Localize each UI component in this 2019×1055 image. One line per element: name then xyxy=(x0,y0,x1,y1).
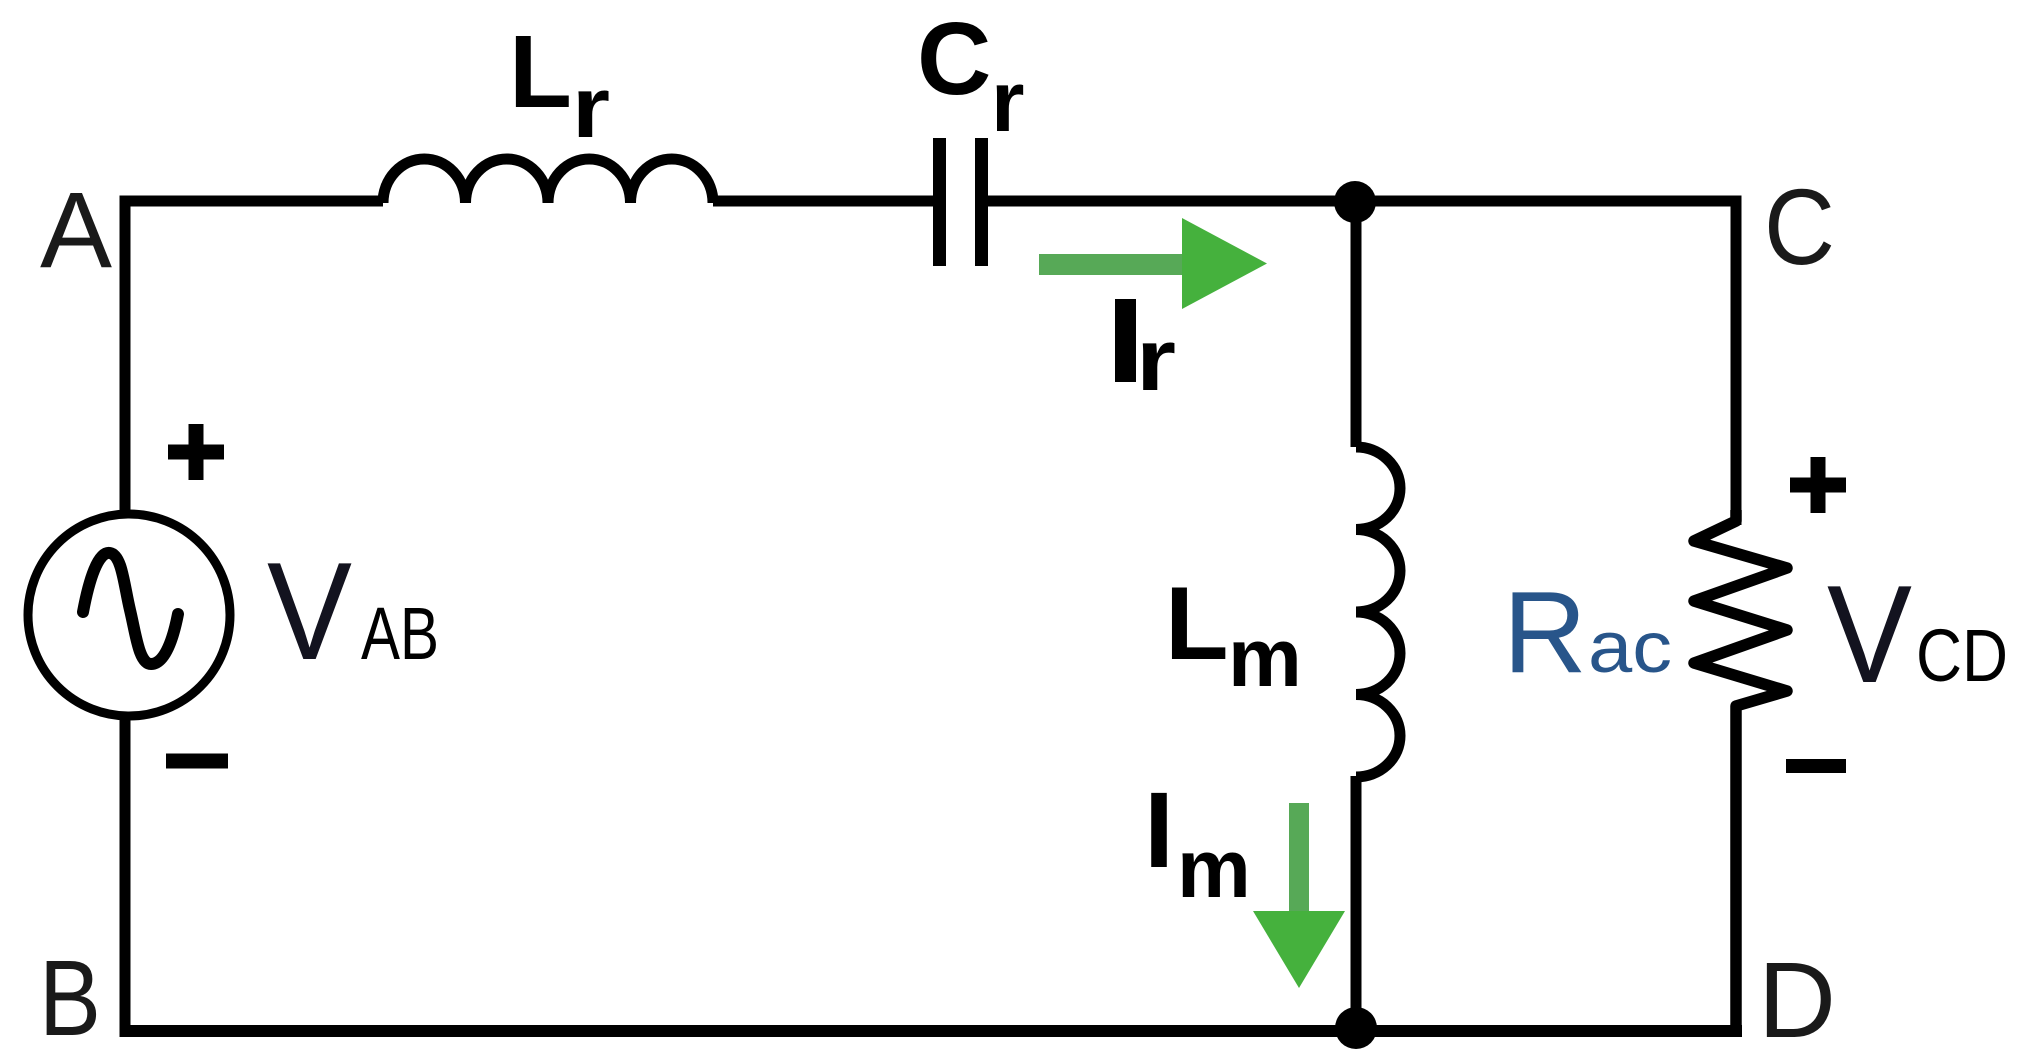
svg-text:A: A xyxy=(40,169,112,290)
svg-text:L: L xyxy=(509,14,572,129)
svg-text:r: r xyxy=(572,60,610,156)
svg-text:I: I xyxy=(1144,769,1174,890)
svg-text:r: r xyxy=(991,54,1024,150)
svg-text:C: C xyxy=(1764,166,1835,287)
svg-text:R: R xyxy=(1503,567,1587,697)
svg-text:D: D xyxy=(1758,939,1836,1055)
svg-text:AB: AB xyxy=(361,592,439,675)
svg-text:ac: ac xyxy=(1588,608,1672,688)
svg-text:m: m xyxy=(1177,822,1251,915)
svg-text:V: V xyxy=(267,534,352,689)
svg-text:C: C xyxy=(917,1,991,116)
svg-text:CD: CD xyxy=(1916,614,2008,697)
svg-text:r: r xyxy=(1136,310,1176,409)
svg-text:L: L xyxy=(1165,566,1229,682)
svg-text:B: B xyxy=(39,937,101,1055)
svg-text:m: m xyxy=(1228,611,1302,704)
svg-text:V: V xyxy=(1827,557,1912,712)
